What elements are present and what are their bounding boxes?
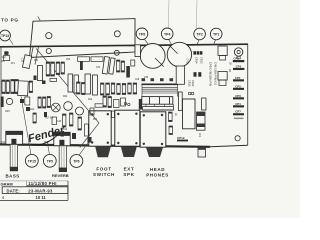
capacitor pair CR13 CR14 [193, 51, 202, 64]
potentiometer R-REVERB legs [59, 146, 67, 172]
svg-text:C39: C39 [144, 77, 149, 79]
capacitor C17 [88, 137, 92, 143]
svg-text:8H2: 8H2 [44, 140, 49, 144]
pad CP4 [233, 76, 244, 82]
resistor R5 [29, 81, 32, 93]
test point TP2 [194, 28, 206, 40]
resistor R4 [15, 80, 18, 94]
svg-text:J6: J6 [174, 113, 177, 116]
resistor R7 [43, 97, 46, 108]
svg-text:23-MAR-93: 23-MAR-93 [28, 188, 53, 193]
wire thick bus [142, 83, 179, 85]
svg-text:GRAM: GRAM [1, 181, 14, 186]
svg-text:1C2: 1C2 [2, 57, 7, 59]
resistor R35 [108, 97, 111, 108]
capacitor C4 [68, 74, 73, 92]
transistor Q2 [51, 103, 60, 112]
svg-text:SPK: SPK [123, 172, 134, 177]
heatsink hole 1 [46, 33, 52, 39]
svg-text:BASS: BASS [6, 173, 20, 178]
test point TP15 [25, 154, 38, 167]
svg-text:DATE:: DATE: [7, 188, 20, 193]
transistor Q5 [76, 107, 84, 115]
capacitor C10 [102, 57, 109, 75]
svg-text:C28: C28 [135, 79, 140, 81]
jack J4 bushing [146, 147, 163, 157]
resistor R2 [6, 80, 9, 94]
mounting hole [235, 136, 240, 141]
board left edge [0, 47, 2, 145]
svg-text:C21: C21 [34, 60, 39, 62]
diode CR2 [80, 61, 83, 71]
capacitor pair CR12 CR15 [188, 72, 202, 87]
IC U1 [18, 81, 29, 96]
svg-text:1B: 1B [228, 69, 231, 72]
svg-text:R22: R22 [63, 96, 68, 98]
svg-text:CR9: CR9 [5, 111, 10, 113]
dense component field [1, 51, 177, 142]
pad CP5 [233, 84, 244, 90]
svg-text:C12: C12 [63, 129, 68, 131]
svg-text:HEAD: HEAD [150, 167, 165, 172]
svg-text:CR13: CR13 [200, 57, 203, 64]
connector tab J10 [218, 46, 227, 60]
label FOOT SWITCH [93, 167, 115, 177]
wire TP1 lead [214, 40, 216, 45]
resistor R39 [169, 126, 173, 135]
svg-text:TP5: TP5 [47, 159, 53, 163]
wire leader V to jack [36, 49, 99, 148]
heatsink HS1 [30, 19, 136, 58]
svg-text:CY8: CY8 [186, 59, 189, 64]
capacitor C24 [26, 107, 30, 111]
pad CP2 bar [233, 60, 245, 62]
capacitor C15 [72, 133, 76, 139]
capacitor C3 [25, 97, 30, 105]
resistor R37 [95, 104, 103, 107]
svg-text:C31: C31 [96, 67, 101, 69]
capacitor C5 [74, 75, 79, 93]
wire leader to TP5 [47, 141, 50, 154]
capacitor C8 [34, 76, 37, 81]
connector tab J11 [218, 72, 227, 86]
resistor R11 [56, 62, 59, 75]
svg-text:4: 4 [2, 195, 5, 200]
capacitor C7 [93, 75, 98, 95]
connector header pins [146, 104, 174, 106]
capacitor C9 [42, 81, 46, 85]
capacitor C37 (large electrolytic) [167, 42, 191, 66]
svg-text:10 11: 10 11 [36, 195, 47, 200]
capacitor row C25 C26 C27 C29 [142, 78, 174, 81]
pad CP3 [233, 64, 244, 70]
transistor Q3 [38, 66, 43, 81]
resistor R38 [33, 113, 36, 123]
test point TP4 [161, 28, 173, 40]
heatsink hole 3 [46, 48, 51, 53]
capacitor C33 [22, 55, 31, 69]
svg-text:CP7: CP7 [235, 110, 241, 114]
resistor R8 [47, 97, 50, 108]
connector bar P2 [143, 107, 174, 110]
heatsink hole 2 [114, 31, 120, 37]
svg-text:TP4: TP4 [164, 32, 170, 36]
heatsink top tick [38, 16, 41, 21]
fuse F1 [4, 51, 10, 60]
resistor R15 [91, 57, 103, 62]
capacitor C40 [197, 112, 206, 138]
board bottom edge [0, 144, 210, 146]
svg-text:TP8: TP8 [139, 32, 145, 36]
pad spare bar [234, 118, 244, 120]
transistor Q8 [191, 92, 194, 95]
jack J2 bushing [95, 147, 111, 158]
resistor R10 [51, 62, 55, 76]
jack J2 foot switch [89, 111, 111, 146]
wire TP4 lead [169, 40, 173, 47]
resistor R34 [103, 96, 106, 107]
svg-text:J01: J01 [198, 133, 201, 138]
capacitor C13 [131, 60, 135, 66]
heatsink bracket leg 2 [35, 46, 39, 64]
svg-text:CR15: CR15 [188, 80, 191, 87]
capacitor C21 [112, 111, 115, 118]
capacitor C23 [44, 112, 47, 117]
potentiometer R-BASS legs [10, 145, 18, 172]
wire faint lead above TP2 [195, 0, 198, 28]
svg-text:R31: R31 [1, 140, 6, 144]
capacitor C22 [52, 117, 57, 125]
board right edge [247, 44, 249, 145]
svg-text:R24: R24 [88, 99, 93, 101]
svg-text:J8: J8 [229, 62, 232, 65]
heatsink bracket leg 1 [30, 47, 33, 64]
ribbon wires [142, 84, 178, 96]
svg-text:R44: R44 [30, 109, 35, 111]
transistor Q1 [6, 98, 12, 104]
svg-text:CR12: CR12 [191, 80, 194, 87]
resistor R3 [11, 80, 14, 94]
pad CP6 [233, 94, 244, 100]
capacitor C35 [135, 45, 140, 57]
capacitor C36 (large electrolytic) [140, 44, 165, 69]
label EXT SPK [123, 167, 134, 177]
resistor R13 [50, 78, 57, 81]
resistor R16 [117, 60, 120, 72]
resistor R6 [38, 97, 41, 108]
capacitor C6 [85, 74, 91, 94]
wire TP2 lead [197, 40, 199, 45]
svg-text:TP6: TP6 [73, 160, 79, 164]
svg-text:EXT: EXT [124, 167, 135, 172]
jack J3 bushing [121, 147, 137, 157]
test point TP5 [43, 154, 56, 167]
svg-text:R40: R40 [66, 59, 71, 61]
potentiometer R-REVERB [54, 132, 70, 145]
resistor R12 [61, 62, 64, 74]
potentiometer R-BASS [6, 131, 23, 144]
transistor Q7 [188, 92, 191, 95]
fuse holder F2 below board [198, 147, 206, 157]
svg-text:REVERB: REVERB [52, 173, 69, 178]
svg-text:TP15: TP15 [28, 159, 36, 163]
jack J4 headphones [140, 112, 166, 147]
component U5 [202, 98, 207, 110]
test point TP13 [0, 30, 10, 41]
transistor Q4 [64, 102, 73, 111]
svg-text:TP2: TP2 [196, 33, 202, 37]
wire leader to TP15 [21, 96, 31, 155]
pad CP1 [233, 102, 244, 108]
capacitor C19 [114, 100, 120, 108]
svg-text:C4B-15BA PIN A22: C4B-15BA PIN A22 [214, 62, 218, 86]
svg-text:R17 3/4: R17 3/4 [45, 118, 54, 120]
trimpot CP2 [233, 48, 242, 61]
svg-text:R8: R8 [2, 61, 6, 63]
svg-text:CP3: CP3 [236, 64, 242, 68]
capacitor C16 [85, 124, 89, 136]
svg-text:CR14: CR14 [195, 57, 198, 64]
wire faint lead above TP4 [167, 0, 170, 28]
resistor R1 [2, 80, 5, 94]
svg-text:C40: C40 [57, 121, 62, 123]
svg-text:PHONES: PHONES [146, 172, 169, 177]
transistor Q9 [128, 103, 130, 105]
resistor R17 [121, 61, 124, 72]
relay K1 [176, 66, 184, 84]
resistor R36 [169, 112, 173, 122]
svg-text:2F1: 2F1 [11, 63, 16, 65]
heatsink hole 4 [114, 50, 119, 55]
svg-text:R52: R52 [93, 119, 98, 121]
wire leader to TP6 [79, 141, 90, 156]
svg-text:TP1: TP1 [213, 33, 219, 37]
resistor R33 [78, 117, 81, 130]
label HEAD PHONES [146, 167, 169, 177]
diode CR4 [139, 99, 142, 110]
IC CP12 [177, 99, 195, 141]
logo Fender [27, 124, 67, 147]
test point TP6 [70, 155, 83, 168]
resistor R31 [63, 114, 66, 127]
svg-text:TP13: TP13 [1, 34, 9, 38]
capacitor C18 [90, 108, 94, 115]
wire TP8 lead [145, 39, 152, 48]
pad CP7 [233, 110, 244, 116]
capacitor C20 [121, 98, 126, 106]
svg-text:C33: C33 [21, 58, 24, 63]
title block [0, 181, 68, 201]
capacitor C14 [61, 131, 65, 137]
test point TP8 [136, 28, 148, 40]
diode CR1 [1, 97, 4, 108]
resistor row R20-R30 [77, 82, 137, 95]
capacitor C11 [109, 58, 115, 74]
resistor R14 [78, 57, 90, 62]
diode CR3 [126, 66, 130, 78]
svg-text:TO PG: TO PG [1, 17, 19, 22]
capacitor C2 [20, 99, 24, 103]
test point TP1 [210, 28, 222, 40]
connector header P1 [142, 97, 173, 105]
wire TP13 lead [10, 39, 14, 45]
resistor R32 [70, 113, 73, 126]
svg-text:FOOT: FOOT [96, 167, 111, 172]
board top edge [0, 44, 248, 47]
component U4 [178, 92, 182, 110]
jack J3 ext spk [115, 110, 140, 146]
svg-text:CPB C4B/15BA PIN: CPB C4B/15BA PIN [209, 62, 213, 86]
svg-text:SWITCH: SWITCH [93, 172, 115, 177]
resistor R9 [46, 62, 50, 76]
small text labels [2, 57, 149, 131]
svg-text:CP12: CP12 [177, 136, 185, 140]
svg-text:CP2: CP2 [233, 56, 239, 60]
transistor Q6 [124, 102, 126, 104]
